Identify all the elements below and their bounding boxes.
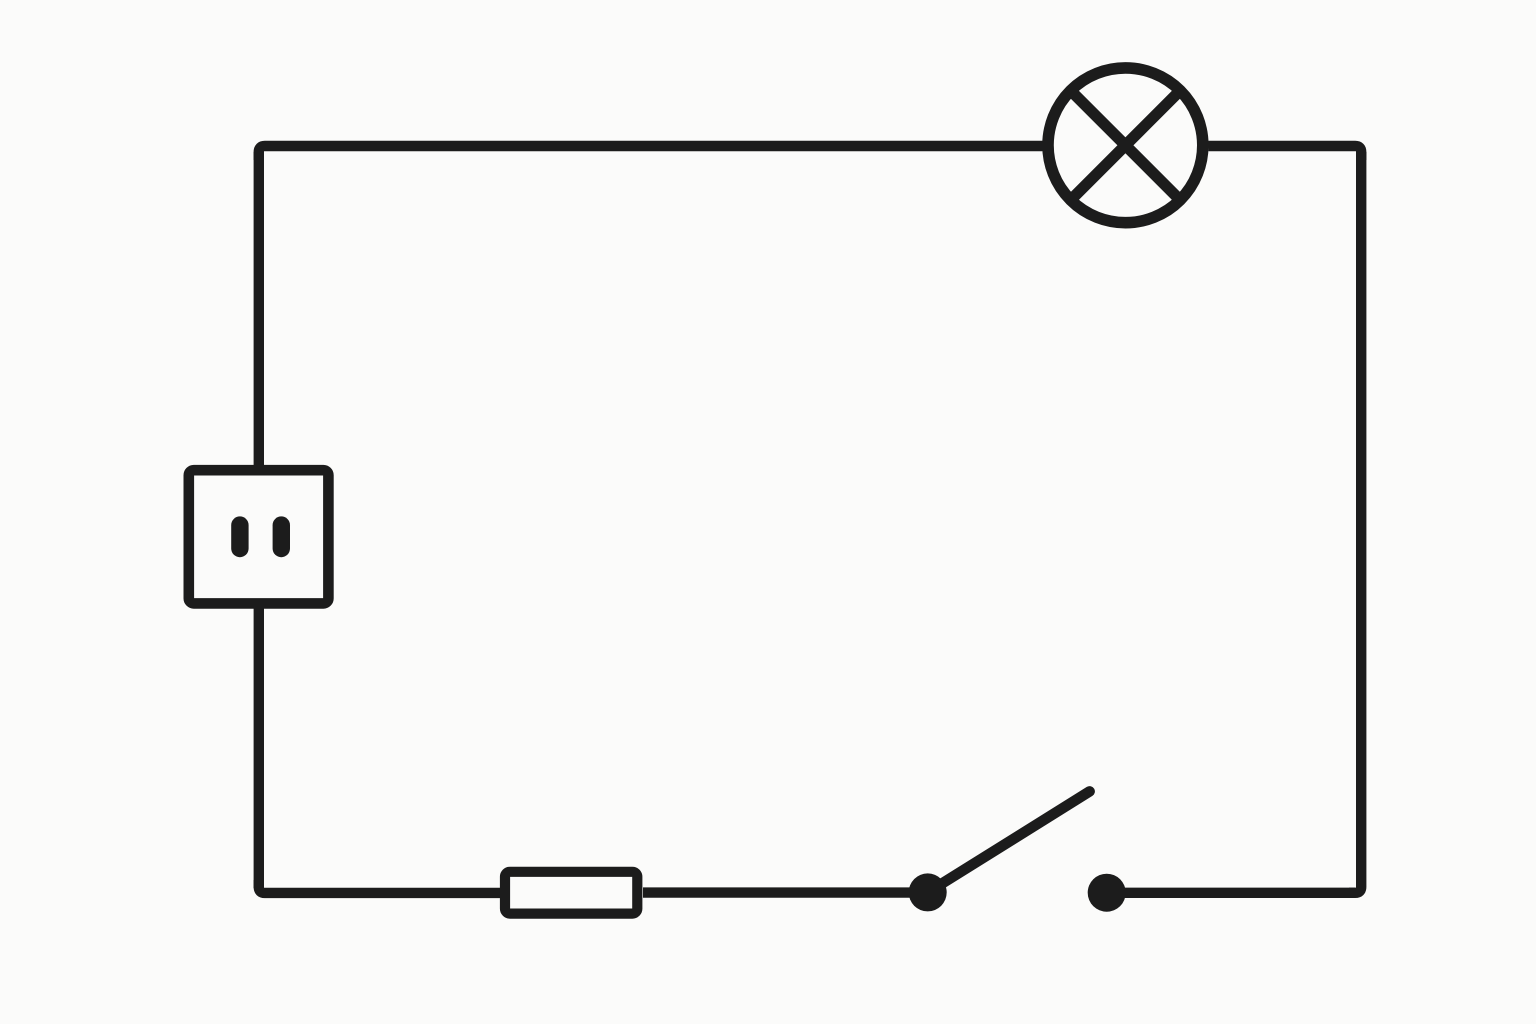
wire: bottom side, from resistor R1 left lead to bottom-left corner [259, 880, 500, 893]
battery B1 box outline [189, 470, 329, 603]
battery B1 right cell mark [273, 516, 290, 557]
wire: left side lower, from bottom-left corner up to battery B1 bottom terminal [254, 603, 264, 888]
wire: bottom side, from bottom-right corner to switch S1 right contact [1107, 888, 1355, 898]
wire: left side upper, from battery B1 top terminal up to top-left corner [254, 152, 264, 470]
switch S1 left contact dot [909, 873, 947, 911]
battery B1: square box with two cell marks on left side of circuit [189, 470, 329, 603]
wire: bottom side, from switch S1 left contact to resistor R1 right lead [643, 887, 928, 897]
switch S1 lever arm (open position) [930, 791, 1090, 891]
switch S1: open SPST switch on bottom wire [909, 791, 1126, 911]
resistor R1: rectangular box on bottom wire [505, 872, 637, 914]
wire: right side, from top-right corner down to bottom-right corner [1349, 152, 1361, 893]
wire: top side, from top-left corner to lamp L1 left terminal [259, 146, 1043, 160]
lamp L1 cross stroke (X inside circle) [1070, 90, 1182, 202]
battery B1 left cell mark [231, 516, 248, 557]
wire: top side, from lamp L1 right terminal to top-right corner [1208, 146, 1361, 160]
lamp L1 circle outline [1048, 68, 1203, 223]
switch S1 right contact dot [1088, 874, 1126, 912]
lamp L1: crossed-circle indicator lamp symbol at top of circuit [1048, 68, 1203, 223]
